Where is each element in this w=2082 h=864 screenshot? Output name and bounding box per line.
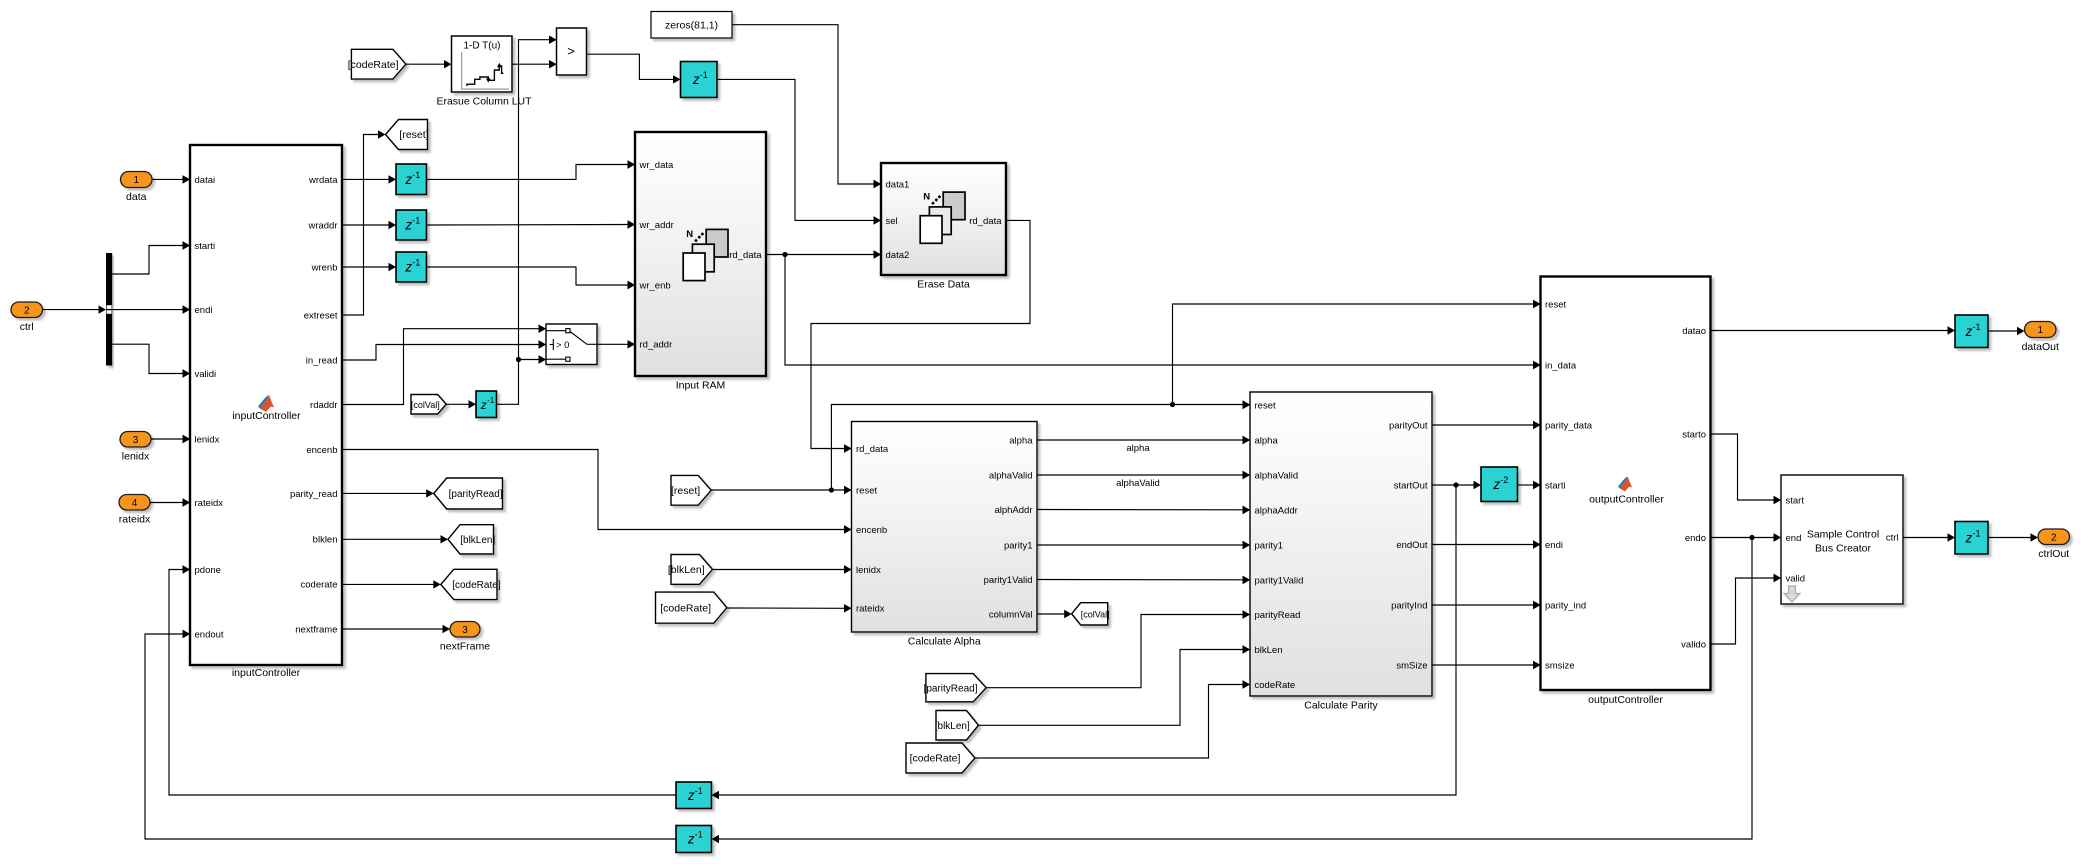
svg-text:nextframe: nextframe xyxy=(295,624,337,635)
svg-text:wr_enb: wr_enb xyxy=(639,280,671,291)
svg-text:in_read: in_read xyxy=(306,355,338,366)
svg-text:-1: -1 xyxy=(412,216,420,226)
svg-text:[reset]: [reset] xyxy=(671,485,700,497)
svg-text:parity1Valid: parity1Valid xyxy=(1255,575,1304,586)
wire feedback delay to pdone xyxy=(169,565,676,795)
svg-text:zeros(81,1): zeros(81,1) xyxy=(665,19,718,31)
wire LUT to relational input2 xyxy=(512,60,557,68)
wire alphaValid to Calculate Parity xyxy=(1037,471,1250,489)
goto tag [reset] xyxy=(386,120,429,150)
svg-text:rateidx: rateidx xyxy=(856,604,885,615)
svg-text:reset: reset xyxy=(1255,400,1276,411)
svg-text:reset: reset xyxy=(1545,299,1566,310)
svg-text:[codeRate]: [codeRate] xyxy=(348,59,399,71)
svg-text:Erase Data: Erase Data xyxy=(917,279,970,291)
svg-text:[blkLen]: [blkLen] xyxy=(460,535,495,546)
wire demux out3 to validi xyxy=(112,344,190,378)
svg-text:outputController: outputController xyxy=(1588,694,1663,706)
output port 1 dataOut xyxy=(2022,322,2059,354)
svg-text:wrdata: wrdata xyxy=(308,175,338,186)
wire bus creator ctrl to delay xyxy=(1903,533,1955,541)
svg-text:1: 1 xyxy=(2037,325,2043,336)
goto tag [blkLen] xyxy=(448,525,495,554)
delay Z-1 (wrdata) xyxy=(396,164,427,195)
wire delay to wr_data xyxy=(427,160,636,179)
svg-text:columnVal: columnVal xyxy=(989,609,1033,620)
svg-text:ctrl: ctrl xyxy=(1886,532,1899,543)
svg-text:[codeRate]: [codeRate] xyxy=(910,753,961,765)
wire endo feedback to delay xyxy=(712,538,1753,844)
svg-text:rdaddr: rdaddr xyxy=(310,400,337,411)
wire from blkLen tag to Calculate Alpha lenidx xyxy=(713,565,852,573)
wire switch to rd_addr xyxy=(597,340,635,348)
svg-text:smsize: smsize xyxy=(1545,660,1575,671)
delay Z-1 (ctrlOut) xyxy=(1955,522,1988,555)
goto tag [parityRead] xyxy=(434,478,503,509)
svg-text:-1: -1 xyxy=(695,786,703,796)
wire rdaddr to switch input1 xyxy=(342,325,546,405)
svg-text:starti: starti xyxy=(1545,480,1566,491)
svg-text:start: start xyxy=(1786,495,1805,506)
svg-text:rateidx: rateidx xyxy=(195,498,224,509)
wire demux out2 to endi xyxy=(112,305,190,313)
svg-text:3: 3 xyxy=(133,435,139,446)
wire columnVal to goto colVal xyxy=(1037,610,1072,618)
block constant zeros(81,1) xyxy=(651,12,732,39)
svg-text:nextFrame: nextFrame xyxy=(440,641,490,653)
wire starto to bus creator start xyxy=(1711,434,1782,504)
svg-text:encenb: encenb xyxy=(306,445,337,456)
wire reset junction to Calculate Parity reset xyxy=(831,400,1250,490)
svg-text:N: N xyxy=(923,192,930,203)
wire from blkLen tag to Calculate Parity xyxy=(979,645,1251,725)
wire parity1Valid to Calculate Parity xyxy=(1037,576,1250,584)
wire alphAddr to Calculate Parity xyxy=(1037,506,1250,514)
wire colVal delay to relational input1 xyxy=(497,36,557,405)
svg-text:-1: -1 xyxy=(487,396,495,405)
block Erasue Column LUT (1-D lookup table) xyxy=(436,36,532,108)
wire extreset to goto reset xyxy=(342,130,386,315)
svg-text:1: 1 xyxy=(133,175,139,186)
wire relational to delay xyxy=(587,54,681,83)
svg-text:[reset]: [reset] xyxy=(399,129,428,141)
svg-text:z: z xyxy=(1492,477,1500,492)
svg-text:endOut: endOut xyxy=(1396,540,1428,551)
svg-text:starto: starto xyxy=(1682,429,1706,440)
svg-text:-1: -1 xyxy=(1973,322,1981,332)
delay Z-1 (wraddr) xyxy=(396,210,427,240)
wire endo to bus creator end xyxy=(1711,533,1782,541)
svg-text:parity_data: parity_data xyxy=(1545,420,1593,431)
svg-text:-1: -1 xyxy=(1973,528,1981,538)
wire encenb to Calculate Alpha encenb xyxy=(342,450,852,534)
svg-text:z: z xyxy=(404,172,412,187)
svg-text:z: z xyxy=(404,260,412,275)
svg-text:lenidx: lenidx xyxy=(195,434,220,445)
wire ctrl port to demux xyxy=(43,305,107,313)
svg-text:z: z xyxy=(404,218,412,233)
wire Input RAM rd_data to Erase Data data2 xyxy=(766,250,881,258)
svg-text:endo: endo xyxy=(1685,533,1706,544)
svg-text:[blkLen]: [blkLen] xyxy=(935,721,970,732)
block switch > 0 xyxy=(539,324,598,365)
wire blklen to goto blkLen xyxy=(342,535,448,543)
block Sample Control Bus Creator xyxy=(1774,475,1904,604)
wire from reset tag to Calculate Alpha reset xyxy=(711,486,851,494)
svg-text:valido: valido xyxy=(1681,639,1706,650)
svg-text:parity1: parity1 xyxy=(1004,540,1033,551)
goto tag [codeRate] xyxy=(441,569,501,599)
svg-text:Calculate Alpha: Calculate Alpha xyxy=(908,636,981,648)
svg-text:3: 3 xyxy=(462,625,468,636)
wire valido to bus creator valid xyxy=(1711,574,1782,644)
goto tag [colVal] xyxy=(1072,603,1110,625)
svg-text:[parityRead]: [parityRead] xyxy=(924,683,978,694)
from tag [blkLen] (to Calculate Alpha) xyxy=(668,555,713,585)
svg-text:parityRead: parityRead xyxy=(1255,610,1301,621)
wire parity_read to goto parityRead xyxy=(342,489,434,497)
delay Z-1 (endout feedback) xyxy=(676,826,712,853)
from tag [parityRead] (to Calculate Parity) xyxy=(924,674,987,702)
wire from codeRate tag to Calculate Parity xyxy=(975,680,1250,758)
svg-text:outputController: outputController xyxy=(1589,494,1664,506)
svg-text:encenb: encenb xyxy=(856,525,887,536)
svg-text:endout: endout xyxy=(195,629,224,640)
svg-text:in_data: in_data xyxy=(1545,360,1577,371)
wire delay to wr_enb xyxy=(427,267,636,289)
svg-text:endi: endi xyxy=(1545,540,1563,551)
svg-text:sel: sel xyxy=(886,216,898,227)
subsystem outputController xyxy=(1533,277,1711,707)
from tag [codeRate] (to Calculate Alpha) xyxy=(656,592,727,623)
wire alpha to Calculate Parity xyxy=(1037,436,1250,454)
svg-text:alpha: alpha xyxy=(1009,435,1033,446)
svg-text:rd_data: rd_data xyxy=(729,250,762,261)
svg-text:codeRate: codeRate xyxy=(1255,680,1296,691)
svg-text:ctrlOut: ctrlOut xyxy=(2038,548,2069,560)
svg-text:Input RAM: Input RAM xyxy=(676,380,726,392)
svg-text:z: z xyxy=(692,72,700,87)
wire from codeRate tag to Calculate Alpha rateidx xyxy=(727,604,852,612)
svg-text:blklen: blklen xyxy=(313,534,338,545)
input port 2 ctrl xyxy=(11,302,43,333)
svg-text:1-D T(u): 1-D T(u) xyxy=(463,41,500,52)
svg-text:datai: datai xyxy=(195,175,216,186)
svg-text:parityInd: parityInd xyxy=(1391,600,1427,611)
svg-text:> 0: > 0 xyxy=(556,340,569,351)
svg-text:z: z xyxy=(687,788,695,803)
svg-text:[colVal]: [colVal] xyxy=(1081,609,1110,619)
svg-text:-1: -1 xyxy=(412,258,420,268)
svg-text:[codeRate]: [codeRate] xyxy=(660,602,711,614)
svg-text:end: end xyxy=(1786,533,1802,544)
wire from colVal tag to delay xyxy=(446,400,476,408)
svg-text:[colVal]: [colVal] xyxy=(411,400,440,410)
delay Z-1 (colVal) xyxy=(476,391,497,418)
svg-text:lenidx: lenidx xyxy=(856,565,881,576)
svg-text:2: 2 xyxy=(2051,532,2057,543)
subsystem Input RAM xyxy=(628,132,767,392)
svg-text:data: data xyxy=(126,191,147,203)
from tag [colVal] (to delay) xyxy=(411,395,446,415)
svg-text:parity_read: parity_read xyxy=(290,489,338,500)
svg-text:[codeRate]: [codeRate] xyxy=(452,580,501,591)
svg-text:alphaValid: alphaValid xyxy=(1116,478,1160,489)
wire demux out1 to starti xyxy=(112,241,190,274)
subsystem Calculate Alpha xyxy=(844,422,1037,648)
svg-text:alphaValid: alphaValid xyxy=(989,470,1033,481)
output port 2 ctrlOut xyxy=(2038,529,2070,560)
svg-text:wraddr: wraddr xyxy=(307,220,337,231)
svg-text:coderate: coderate xyxy=(301,579,338,590)
block relational operator > xyxy=(549,28,587,75)
wire endOut to endi xyxy=(1432,540,1541,548)
delay Z-1 (pdone feedback) xyxy=(676,782,712,809)
svg-text:extreset: extreset xyxy=(304,310,338,321)
svg-text:inputController: inputController xyxy=(232,667,301,679)
delay Z-1 (dataOut) xyxy=(1955,315,1988,348)
wire reset junction to outputController reset xyxy=(1173,300,1541,405)
svg-text:validi: validi xyxy=(195,369,217,380)
svg-text:alpha: alpha xyxy=(1255,435,1279,446)
svg-text:-1: -1 xyxy=(412,170,420,180)
wire parityInd to parity_ind xyxy=(1432,601,1541,609)
wire Erase Data rd_data to Calculate Alpha rd_data xyxy=(811,220,1030,452)
wire in_read to switch control xyxy=(342,340,546,360)
svg-text:wr_addr: wr_addr xyxy=(639,220,674,231)
wire parity1 to Calculate Parity xyxy=(1037,541,1250,549)
input port 3 lenidx xyxy=(120,432,151,463)
delay Z-1 (wrenb) xyxy=(396,252,427,282)
from tag [codeRate] (to Calculate Parity) xyxy=(906,743,975,773)
wire smSize to smsize xyxy=(1432,661,1541,669)
svg-text:4: 4 xyxy=(132,498,138,509)
input port 1 data xyxy=(121,172,153,204)
svg-text:datao: datao xyxy=(1682,326,1706,337)
wire delay to Erase Data sel xyxy=(717,79,881,224)
wire coderate to goto codeRate xyxy=(342,580,441,588)
svg-text:-1: -1 xyxy=(695,830,703,840)
input port 4 rateidx xyxy=(119,495,151,526)
svg-text:reset: reset xyxy=(856,485,877,496)
svg-text:>: > xyxy=(567,44,575,59)
wire wrdata to delay xyxy=(342,175,396,183)
wire zeros to Erase Data data1 xyxy=(732,25,881,189)
output port 3 nextFrame xyxy=(440,622,490,653)
svg-text:parity1Valid: parity1Valid xyxy=(984,575,1033,586)
wire lenidx port to lenidx xyxy=(151,435,190,443)
wire delay to ctrlOut port xyxy=(1988,533,2038,541)
svg-text:ctrl: ctrl xyxy=(20,321,34,333)
wire from parityRead tag to Calculate Parity xyxy=(986,610,1250,687)
svg-text:alphaAddr: alphaAddr xyxy=(1255,505,1298,516)
svg-text:valid: valid xyxy=(1786,573,1806,584)
svg-text:startOut: startOut xyxy=(1394,480,1428,491)
svg-text:pdone: pdone xyxy=(195,565,221,576)
svg-text:Calculate Parity: Calculate Parity xyxy=(1304,700,1378,712)
svg-text:endi: endi xyxy=(195,305,213,316)
wire nextframe to port nextFrame xyxy=(342,625,450,633)
svg-text:Bus Creator: Bus Creator xyxy=(1815,543,1872,555)
svg-text:data2: data2 xyxy=(886,250,910,261)
wire wrenb to delay xyxy=(342,263,396,271)
svg-text:lenidx: lenidx xyxy=(122,451,150,463)
svg-text:smSize: smSize xyxy=(1396,660,1427,671)
svg-text:data1: data1 xyxy=(886,179,910,190)
svg-text:-1: -1 xyxy=(700,70,708,80)
wire rateidx port to rateidx xyxy=(150,498,190,506)
wire startOut to delay Z-2 xyxy=(1432,481,1481,489)
svg-text:wr_data: wr_data xyxy=(639,160,675,171)
svg-text:parity1: parity1 xyxy=(1255,540,1284,551)
wire delay to wr_addr xyxy=(427,220,636,228)
svg-text:alpha: alpha xyxy=(1126,443,1150,454)
demux (ctrl bus split) xyxy=(106,253,112,366)
wire feedback delay to endout xyxy=(145,630,676,839)
from tag [codeRate] (to LUT) xyxy=(348,49,406,79)
from tag [blkLen] (to Calculate Parity) xyxy=(935,711,979,741)
svg-text:Sample Control: Sample Control xyxy=(1807,529,1879,541)
svg-text:parityOut: parityOut xyxy=(1389,420,1428,431)
subsystem Calculate Parity xyxy=(1243,392,1433,712)
svg-text:z: z xyxy=(1965,324,1973,339)
wire parityOut to parity_data xyxy=(1432,421,1541,429)
wire datao to delay xyxy=(1711,326,1956,334)
wire from codeRate to LUT xyxy=(406,60,452,68)
wire wraddr to delay xyxy=(342,221,396,229)
svg-text:[parityRead]: [parityRead] xyxy=(449,489,503,500)
subsystem inputController xyxy=(183,145,343,679)
svg-text:inputController: inputController xyxy=(232,410,301,422)
svg-text:alphaValid: alphaValid xyxy=(1255,470,1299,481)
from tag [reset] (to Calculate Alpha) xyxy=(671,475,711,505)
wire delay Z-2 to starti xyxy=(1518,481,1541,489)
wire startOut feedback to delay xyxy=(712,485,1457,799)
svg-text:parity_ind: parity_ind xyxy=(1545,600,1586,611)
svg-text:dataOut: dataOut xyxy=(2022,341,2059,353)
wire junction to switch input3 xyxy=(519,355,547,363)
svg-text:alphAddr: alphAddr xyxy=(994,505,1032,516)
svg-text:N: N xyxy=(686,229,693,240)
svg-text:z: z xyxy=(480,400,487,412)
svg-text:starti: starti xyxy=(195,241,216,252)
svg-text:Erasue Column LUT: Erasue Column LUT xyxy=(436,96,532,108)
wire data port to datai xyxy=(152,175,190,183)
svg-text:rateidx: rateidx xyxy=(119,514,151,526)
svg-text:2: 2 xyxy=(24,305,30,316)
svg-text:wrenb: wrenb xyxy=(311,262,338,273)
svg-text:[blkLen]: [blkLen] xyxy=(668,564,705,576)
svg-text:rd_addr: rd_addr xyxy=(640,340,673,351)
delay Z-1 (erase select) xyxy=(681,62,718,98)
delay Z-2 (startOut) xyxy=(1481,467,1518,502)
subsystem Erase Data xyxy=(874,163,1007,291)
svg-text:z: z xyxy=(1965,530,1973,545)
wire rd_data junction to outputController in_data xyxy=(785,255,1541,370)
wire delay to dataOut port xyxy=(1988,327,2025,335)
svg-text:blkLen: blkLen xyxy=(1255,645,1283,656)
svg-text:z: z xyxy=(687,832,695,847)
svg-text:rd_data: rd_data xyxy=(856,444,889,455)
svg-text:rd_data: rd_data xyxy=(969,216,1002,227)
svg-text:-2: -2 xyxy=(1500,475,1508,485)
